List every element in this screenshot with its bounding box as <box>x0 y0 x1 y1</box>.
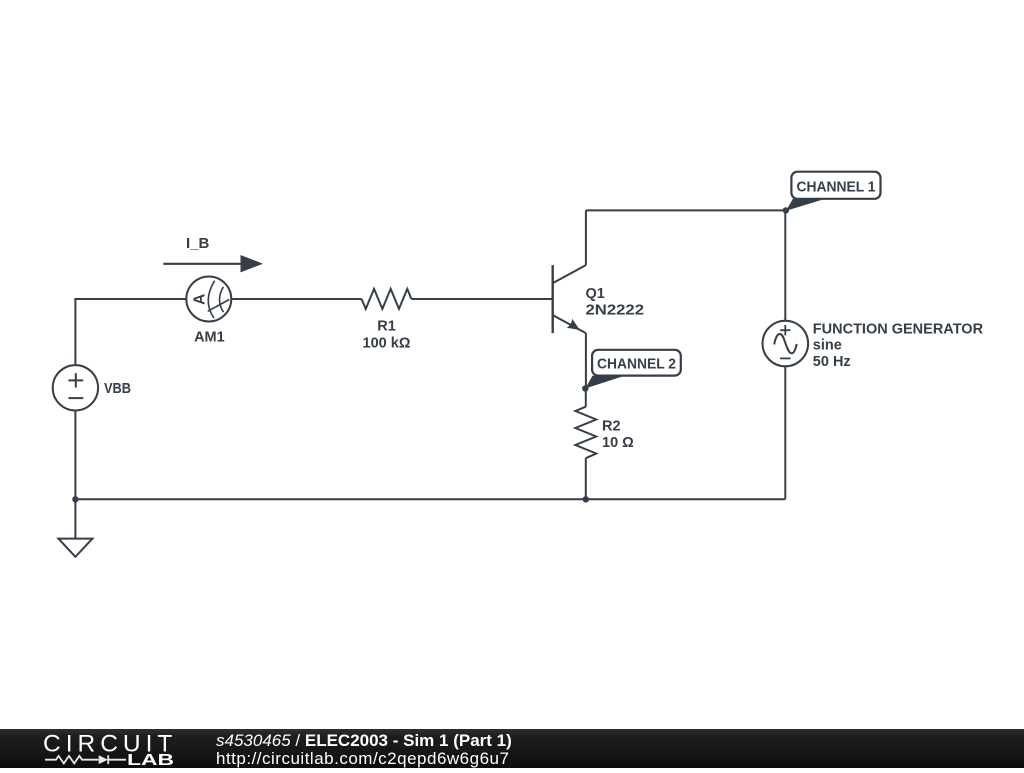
resistor R1 <box>362 289 412 309</box>
junction bottom-left <box>72 496 78 502</box>
junction channel 2 node <box>582 385 588 391</box>
wire top horizontal to channel 1 node <box>586 209 785 211</box>
svg-text:100 kΩ: 100 kΩ <box>363 336 411 352</box>
svg-text:LAB: LAB <box>127 752 174 768</box>
node CHANNEL 2 flag <box>585 350 681 389</box>
wire function generator top lead <box>784 210 786 320</box>
svg-text:CHANNEL 2: CHANNEL 2 <box>597 355 676 372</box>
svg-text:CHANNEL 1: CHANNEL 1 <box>797 179 876 196</box>
resistor R2 <box>575 407 596 459</box>
ground <box>58 539 92 557</box>
svg-text:Q1: Q1 <box>586 286 605 302</box>
junction R2 bottom <box>583 496 589 502</box>
svg-text:I_B: I_B <box>186 235 210 252</box>
svg-text:R1: R1 <box>377 319 396 335</box>
svg-text:2N2222: 2N2222 <box>586 303 645 319</box>
transistor Q1 <box>553 265 586 333</box>
svg-text:10 Ω: 10 Ω <box>602 435 634 451</box>
wire R2 bottom lead <box>585 458 587 499</box>
svg-text:FUNCTION GENERATOR: FUNCTION GENERATOR <box>813 322 984 338</box>
node CHANNEL 1 flag <box>786 172 880 211</box>
svg-text:R2: R2 <box>602 419 621 435</box>
svg-text:VBB: VBB <box>104 381 131 397</box>
wire VBB top lead <box>74 299 76 365</box>
wire R1 to Q1 base <box>412 298 553 300</box>
wire R2 top lead <box>585 389 587 407</box>
wire collector vertical <box>585 210 587 265</box>
wire bottom horizontal rail <box>75 498 785 500</box>
junction channel 1 node <box>783 207 789 213</box>
wire VBB bottom lead to ground <box>74 410 76 538</box>
wire top-left horizontal to ammeter <box>74 298 186 300</box>
svg-text:sine: sine <box>813 338 842 354</box>
function generator V1 <box>763 321 809 367</box>
svg-text:A: A <box>191 294 208 305</box>
wire emitter vertical <box>585 333 587 388</box>
ammeter AM1 <box>186 277 231 322</box>
wire ammeter to R1 <box>231 298 361 300</box>
current arrow I_B <box>163 255 263 272</box>
svg-text:50 Hz: 50 Hz <box>813 354 851 370</box>
svg-text:AM1: AM1 <box>194 329 225 345</box>
wire function generator bottom lead <box>784 366 786 499</box>
voltage source VBB <box>53 365 98 410</box>
